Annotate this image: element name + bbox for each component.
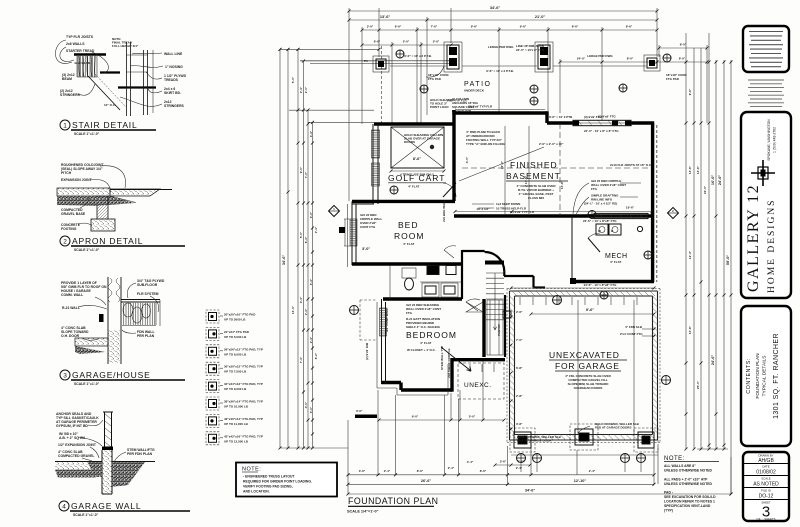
bedroom2 left wall with window [380, 299, 387, 384]
right notes [664, 456, 719, 513]
svg-text:8'-6": 8'-6" [413, 157, 421, 161]
golf cart slab pad with X [390, 127, 446, 177]
svg-text:- ENGINEERED TRUSS LAYOUT: - ENGINEERED TRUSS LAYOUT [243, 475, 295, 479]
svg-text:14'-6": 14'-6" [688, 165, 692, 174]
svg-text:UP TO 10,000 LB: UP TO 10,000 LB [224, 405, 249, 409]
detail 4 label: GARAGE WALL [59, 501, 190, 517]
svg-text:10'-8": 10'-8" [560, 180, 564, 189]
post P1 footing dashed line [381, 46, 383, 124]
svg-text:CLASS MIX: CLASS MIX [528, 196, 544, 200]
svg-text:12" O.C.: 12" O.C. [104, 103, 116, 107]
bottom extension lines [348, 390, 731, 494]
svg-text:1/2" EXPANSION JOINT: 1/2" EXPANSION JOINT [58, 443, 97, 447]
garage left interior dim texts [510, 310, 642, 475]
svg-text:BEDROOM: BEDROOM [406, 330, 457, 340]
svg-text:REQUIRED FOR GIRDER POINT LOAD: REQUIRED FOR GIRDER POINT LOADING. [243, 480, 312, 484]
svg-text:AND LOCATION.: AND LOCATION. [243, 490, 270, 494]
svg-text:FTG: FTG [591, 187, 598, 191]
svg-text:13'-6": 13'-6" [380, 15, 391, 19]
svg-text:UP TO 7,500 LB: UP TO 7,500 LB [224, 370, 247, 374]
svg-text:PAD AT GARAGE DOOR: PAD AT GARAGE DOOR [517, 439, 552, 443]
svg-text:COMPACTED GRAVEL: COMPACTED GRAVEL [58, 454, 94, 458]
svg-text:UP TO 5,000 LB: UP TO 5,000 LB [224, 335, 247, 339]
svg-text:3'-0": 3'-0" [356, 409, 363, 413]
svg-text:WALL LINE: WALL LINE [164, 52, 183, 56]
garage footing pads left cluster [510, 428, 535, 452]
svg-text:FTG PAD: FTG PAD [428, 77, 442, 81]
svg-text:SKIRT BD.: SKIRT BD. [164, 91, 181, 95]
svg-text:UNLESS OTHERWISE NOTED: UNLESS OTHERWISE NOTED [664, 469, 713, 473]
svg-text:STAIR DETAIL: STAIR DETAIL [72, 120, 138, 130]
black glb bar [355, 415, 377, 419]
mech room left wall [571, 216, 573, 282]
svg-text:34'-6": 34'-6" [490, 6, 501, 10]
garage inside hatch ticks [520, 297, 637, 305]
svg-text:SEE EXCAVATION FOR SOIL/LD: SEE EXCAVATION FOR SOIL/LD [664, 495, 716, 499]
bottom dimension lines [347, 360, 733, 496]
svg-text:TYP FLR JOISTS: TYP FLR JOISTS [66, 35, 94, 39]
svg-text:3'-6": 3'-6" [500, 460, 507, 464]
mech corner post [570, 278, 576, 284]
svg-text:34"x34"x12" FTG PAD, TYP: 34"x34"x12" FTG PAD, TYP [224, 382, 263, 386]
detail 1: stair detail sketch [55, 35, 186, 116]
svg-text:DOORS: DOORS [404, 140, 415, 144]
svg-text:9'-0": 9'-0" [412, 415, 419, 419]
svg-text:P6: P6 [364, 59, 368, 63]
svg-text:24'-0": 24'-0" [718, 175, 722, 186]
svg-text:OF SHEETS: OF SHEETS [757, 517, 776, 521]
detail 4: garage wall sketch [55, 412, 155, 494]
detail 1 label: STAIR DETAIL [60, 120, 156, 136]
golf cart room top wall [374, 122, 455, 125]
landing wall to stairs [462, 250, 485, 252]
svg-text:(2) 9'x9' TYP FLR: (2) 9'x9' TYP FLR [468, 105, 493, 109]
svg-text:TYPE "A" END-ON FILLING: TYPE "A" END-ON FILLING [466, 142, 506, 146]
svg-text:26"x26"x12" FTG PAD, TYP: 26"x26"x12" FTG PAD, TYP [224, 347, 263, 351]
svg-text:UP TO 11,000 LB: UP TO 11,000 LB [224, 422, 249, 426]
footing offset lines bottom-left [345, 204, 452, 395]
svg-text:GARAGE WALL: GARAGE WALL [71, 501, 141, 511]
garage internal dim [530, 308, 656, 316]
garage perimeter stem walls [510, 291, 658, 440]
svg-text:SPOKANE, WASHINGTON: SPOKANE, WASHINGTON [767, 119, 771, 161]
svg-text:GALLERY 12: GALLERY 12 [745, 184, 762, 292]
svg-text:3: 3 [63, 373, 67, 380]
svg-text:PER PLAN: PER PLAN [137, 334, 155, 338]
svg-text:14'-6": 14'-6" [696, 165, 700, 174]
svg-text:2'-4": 2'-4" [516, 466, 523, 470]
mech room bottom wall [572, 280, 654, 283]
svg-text:2'x4' CONT FTG: 2'x4' CONT FTG [620, 332, 643, 336]
svg-text:SCALE: SCALE [761, 477, 770, 481]
svg-text:4x12 BEAM: 4x12 BEAM [74, 61, 91, 65]
svg-text:PATIO: PATIO [464, 81, 491, 88]
svg-text:FOOTING: FOOTING [61, 227, 77, 231]
svg-text:2x6 WALLS: 2x6 WALLS [66, 42, 85, 46]
top wall step [545, 111, 548, 123]
svg-text:4: 4 [62, 504, 66, 511]
svg-text:9'-6" = 10' x 2 P.T.B.: 9'-6" = 10' x 2 P.T.B. [486, 69, 514, 73]
svg-text:OVERHEAD DOORS: OVERHEAD DOORS [574, 386, 603, 390]
svg-text:CONT FTG: CONT FTG [360, 225, 376, 229]
svg-text:FULL HEIGHT 3/4": FULL HEIGHT 3/4" [112, 44, 139, 48]
svg-text:SCALE 1"=1'-0": SCALE 1"=1'-0" [74, 132, 100, 136]
svg-text:RIM LINE INFO: RIM LINE INFO [591, 198, 613, 202]
svg-text:3'-0": 3'-0" [367, 25, 374, 29]
svg-text:5'-0": 5'-0" [433, 40, 440, 44]
svg-text:14'-0": 14'-0" [291, 305, 295, 314]
stair enclosure walls [503, 272, 505, 276]
stair landing bar [485, 261, 504, 265]
detail 2: apron detail sketch [57, 163, 172, 231]
svg-text:3'-0": 3'-0" [362, 247, 370, 251]
leader arrow into unexc [441, 347, 471, 371]
svg-text:FTG PAD: FTG PAD [666, 77, 680, 81]
garage footing pads mid cluster [570, 424, 598, 450]
svg-text:SCALE 1"=1'-0": SCALE 1"=1'-0" [74, 248, 100, 252]
svg-text:8'-6": 8'-6" [480, 469, 487, 473]
svg-text:2: 2 [63, 239, 67, 246]
garage footing pads right cluster [634, 428, 658, 452]
svg-text:DRAWN BY: DRAWN BY [759, 454, 774, 458]
svg-text:16'-0": 16'-0" [711, 175, 715, 186]
svg-text:9'-6" = 10' 2 PTB: 9'-6" = 10' 2 PTB [549, 115, 573, 119]
svg-text:ALL PADS + 2'-0" x10" ATP: ALL PADS + 2'-0" x10" ATP [664, 478, 708, 482]
svg-text:PITCH: PITCH [61, 171, 72, 175]
svg-text:FILE ID: FILE ID [761, 489, 770, 493]
svg-text:5'-0": 5'-0" [291, 76, 295, 83]
svg-text:8'-6": 8'-6" [417, 469, 424, 473]
svg-text:24'-0": 24'-0" [577, 57, 586, 61]
svg-text:7'-6": 7'-6" [431, 25, 438, 29]
svg-text:1 (509) 443-2762: 1 (509) 443-2762 [773, 127, 777, 153]
svg-text:19'-4 1/2": 19'-4 1/2" [476, 207, 490, 211]
svg-text:6'-6": 6'-6" [374, 40, 381, 44]
note box [236, 463, 337, 497]
svg-text:7'-4": 7'-4" [299, 356, 303, 363]
svg-text:CONTENTS:: CONTENTS: [746, 358, 752, 393]
svg-text:2x8 SHELF CRIPPLE: 2x8 SHELF CRIPPLE [447, 348, 451, 378]
svg-text:9'-0" = 10' x 2 P.T.B.: 9'-0" = 10' x 2 P.T.B. [404, 54, 432, 58]
svg-text:UP TO 6,000 LB: UP TO 6,000 LB [224, 352, 247, 356]
svg-text:UP TO 12,500 LB: UP TO 12,500 LB [224, 439, 249, 443]
girder dashed line in basement [559, 123, 561, 216]
svg-text:FTG: FTG [406, 311, 413, 315]
top dimension lines [348, 6, 709, 64]
svg-text:UNLESS OTHERWISE NOTED: UNLESS OTHERWISE NOTED [664, 482, 713, 486]
closet door x pattern [466, 302, 483, 312]
hall door arcs [466, 299, 480, 311]
wall callout dashed leaders bedroom2 [360, 300, 376, 340]
svg-text:6'-2": 6'-2" [314, 352, 318, 359]
golf cart door swing [443, 183, 456, 197]
svg-text:2x6 BRG WALL: 2x6 BRG WALL [442, 200, 446, 222]
window sill block bedroom1 [339, 227, 345, 233]
svg-text:FOR GARAGE: FOR GARAGE [555, 361, 620, 371]
svg-text:SPECIFICATION VENT-LAND: SPECIFICATION VENT-LAND [664, 504, 711, 508]
svg-text:PANTRY: PANTRY [497, 324, 501, 336]
svg-text:TREADS: TREADS [164, 78, 179, 82]
pantry under stairs [487, 300, 503, 355]
svg-text:2'-4": 2'-4" [384, 469, 391, 473]
svg-text:STARTER TREAD: STARTER TREAD [66, 49, 95, 53]
left dimension lines [279, 48, 381, 450]
svg-text:GRAVEL BASE: GRAVEL BASE [61, 212, 86, 216]
svg-text:3'-4": 3'-4" [309, 130, 313, 137]
deck post P2 [444, 42, 462, 72]
svg-text:6'-6": 6'-6" [395, 25, 402, 29]
svg-text:12'-4": 12'-4" [688, 250, 692, 259]
svg-text:2'-4": 2'-4" [589, 469, 596, 473]
svg-text:EXPANSION JOINT: EXPANSION JOINT [61, 178, 93, 182]
svg-text:26'-6": 26'-6" [421, 479, 432, 483]
svg-text:4'-0": 4'-0" [465, 156, 469, 163]
svg-text:9'-6": 9'-6" [688, 88, 692, 95]
svg-text:UP TO 9,000 LB: UP TO 9,000 LB [224, 387, 247, 391]
basement top wall east segment with window [547, 121, 573, 124]
svg-text:9'-6": 9'-6" [520, 25, 527, 29]
svg-text:NOTE:: NOTE: [664, 456, 685, 462]
long diagonal leader [459, 147, 544, 181]
svg-text:5'-0": 5'-0" [403, 40, 410, 44]
svg-text:FOUNDATION PLAN: FOUNDATION PLAN [755, 353, 761, 399]
svg-text:POINT LOAD: POINT LOAD [430, 105, 449, 109]
svg-text:4" FDN SLB: 4" FDN SLB [625, 325, 643, 329]
garage left wall post [503, 311, 511, 318]
extension lines crossing garage [578, 300, 634, 434]
svg-text:(2) 9'x9' RIM: (2) 9'x9' RIM [365, 342, 369, 360]
small step dims near garage corner [495, 464, 530, 466]
svg-text:VERIFY FOOTING PAD SIZING,: VERIFY FOOTING PAD SIZING, [243, 485, 293, 489]
main upper-left vertical wall [452, 110, 455, 201]
svg-text:1x3 KEEP DOWN: 1x3 KEEP DOWN [496, 202, 520, 206]
bathroom fixtures [390, 265, 462, 299]
svg-text:9'-0": 9'-0" [299, 166, 303, 173]
washer dryer [596, 224, 621, 235]
svg-text:O.H. DOOR: O.H. DOOR [61, 334, 80, 338]
svg-text:9'-6": 9'-6" [586, 308, 594, 312]
svg-text:1: 1 [63, 123, 67, 130]
svg-text:W CLOSET + 4' O.C.: W CLOSET + 4' O.C. [407, 348, 436, 352]
svg-text:30"x30"x12" FTG PAD, TYP: 30"x30"x12" FTG PAD, TYP [224, 365, 263, 369]
top extension lines [362, 8, 707, 124]
svg-text:SUB-FLOOR: SUB-FLOOR [137, 283, 158, 287]
svg-text:PAD -: PAD - [664, 491, 673, 495]
svg-text:6'-4": 6'-4" [304, 236, 308, 243]
svg-text:APRON DETAIL: APRON DETAIL [72, 236, 143, 246]
curved stair wall [485, 252, 505, 272]
svg-text:2'-4": 2'-4" [309, 336, 313, 343]
svg-text:21'-0": 21'-0" [535, 15, 546, 19]
svg-text:01/08/02: 01/08/02 [756, 470, 776, 476]
logo cross [762, 160, 764, 186]
svg-text:3'-8": 3'-8" [516, 422, 523, 426]
svg-text:A.B. + 2" SQ WA: A.B. + 2" SQ WA [59, 436, 86, 440]
svg-text:BEAM: BEAM [62, 77, 72, 81]
footing pad legend [206, 310, 256, 323]
svg-text:LOCATION REFER TO NOTES 1: LOCATION REFER TO NOTES 1 [664, 500, 715, 504]
svg-text:24'-0" = 10'x 8" FLR: 24'-0" = 10'x 8" FLR [516, 48, 545, 52]
svg-text:24'-6": 24'-6" [711, 355, 715, 366]
svg-text:24'-6" - 10' x 8"x8" FTG: 24'-6" - 10' x 8"x8" FTG [584, 283, 618, 287]
garage dim line at piers [511, 454, 658, 456]
svg-text:34'-6": 34'-6" [525, 488, 536, 492]
svg-text:ALL WALLS ARE 8": ALL WALLS ARE 8" [664, 464, 696, 468]
svg-text:7'-0": 7'-0" [516, 338, 523, 342]
diamond markers [329, 206, 340, 217]
svg-text:2'-6": 2'-6" [516, 310, 523, 314]
bath right wall [461, 250, 463, 299]
svg-text:STEM WALL TYP: STEM WALL TYP [440, 346, 444, 370]
svg-text:BASEMENT: BASEMENT [506, 171, 561, 181]
svg-text:2x10 FLR JOISTS AT 16" O.C.: 2x10 FLR JOISTS AT 16" O.C. [610, 163, 652, 167]
svg-text:4'-0": 4'-0" [304, 401, 308, 408]
patio deck edge lines [300, 54, 646, 73]
svg-text:STRINGERS: STRINGERS [164, 104, 185, 108]
svg-text:UNEXCAVATED: UNEXCAVATED [549, 350, 620, 360]
svg-text:24'-0" - 10' x 8" x 8" FTG: 24'-0" - 10' x 8" x 8" FTG [584, 129, 619, 133]
dim between mech and garage [510, 283, 656, 290]
svg-text:TYPICAL DETAILS: TYPICAL DETAILS [762, 356, 768, 397]
svg-text:40"x40"x14" FTG PAD, TYP: 40"x40"x14" FTG PAD, TYP [224, 417, 263, 421]
svg-text:1301 SQ. FT. RANCHER: 1301 SQ. FT. RANCHER [773, 333, 780, 419]
svg-text:8'-0": 8'-0" [679, 57, 686, 61]
svg-text:FINISHED: FINISHED [510, 160, 558, 170]
svg-text:(24'-1" - 10' x 4 1/2" RS): (24'-1" - 10' x 4 1/2" RS) [584, 202, 617, 206]
svg-text:4" FLAT: 4" FLAT [420, 341, 432, 345]
deck post P3 [535, 42, 553, 72]
svg-text:4" FLAT: 4" FLAT [610, 260, 622, 264]
garage wall hatch [510, 291, 658, 440]
svg-text:(TYP): (TYP) [664, 509, 673, 513]
golf cart left wall with windows [352, 124, 380, 204]
svg-text:2'-4": 2'-4" [299, 86, 303, 93]
svg-text:34'-6": 34'-6" [282, 255, 286, 266]
svg-text:24"x24" FTG PAD: 24"x24" FTG PAD [224, 330, 250, 334]
title block: copyright box [743, 26, 789, 72]
svg-text:NOTE:: NOTE: [242, 467, 261, 473]
deck post P4 [644, 55, 660, 71]
svg-text:2'-8": 2'-8" [516, 394, 523, 398]
svg-text:GOLF CART: GOLF CART [388, 173, 446, 183]
mech door [588, 238, 600, 252]
extra basement interior dims and texts [454, 44, 654, 214]
svg-text:3'-6": 3'-6" [359, 469, 366, 473]
svg-text:GYPSUM, IF INT BD: GYPSUM, IF INT BD [56, 424, 88, 428]
svg-text:42"x42"x16" FTG PAD, TYP: 42"x42"x16" FTG PAD, TYP [224, 434, 263, 438]
svg-text:6'-8": 6'-8" [516, 366, 523, 370]
hw circle mech [637, 226, 642, 231]
svg-text:3'-4": 3'-4" [299, 296, 303, 303]
svg-text:24'-6" = 10' x 8"x8" FTG: 24'-6" = 10' x 8"x8" FTG [583, 219, 617, 223]
deck post P1 [364, 56, 389, 72]
svg-text:3'-0": 3'-0" [309, 211, 313, 218]
svg-text:UNDER DECK: UNDER DECK [464, 89, 485, 93]
mid bearing wall [454, 214, 652, 217]
svg-text:LEDGE PER DWG: LEDGE PER DWG [587, 54, 613, 58]
bedroom2 bottom walls [382, 381, 402, 384]
garage pier symbols interior [553, 211, 671, 385]
svg-text:5'-0": 5'-0" [469, 415, 476, 419]
svg-text:12'-10": 12'-10" [574, 479, 587, 483]
svg-text:DO-12: DO-12 [759, 494, 774, 500]
svg-text:4" FLAT: 4" FLAT [408, 185, 420, 189]
svg-text:7'-0": 7'-0" [304, 171, 308, 178]
svg-text:19'-6": 19'-6" [626, 206, 635, 210]
svg-text:8'-6": 8'-6" [572, 25, 579, 29]
title block: small text block [748, 80, 784, 107]
svg-text:UNEXC.: UNEXC. [464, 382, 492, 389]
svg-text:5'-0": 5'-0" [299, 231, 303, 238]
title block: gallery 12 home designs [741, 112, 791, 298]
svg-text:BED: BED [398, 220, 418, 230]
svg-text:(2) 9'x9' TYP FLR: (2) 9'x9' TYP FLR [510, 210, 535, 214]
svg-text:2'-4": 2'-4" [314, 226, 318, 233]
svg-text:AS NOTED: AS NOTED [753, 482, 779, 488]
svg-text:3'-0": 3'-0" [309, 406, 313, 413]
stair treads [486, 273, 504, 330]
unexc crawl box [458, 363, 504, 399]
svg-text:10'-6": 10'-6" [688, 325, 692, 334]
svg-text:HOME DESIGNS: HOME DESIGNS [767, 199, 777, 293]
svg-text:DATE: DATE [762, 465, 769, 469]
svg-text:FLR SYSTEM: FLR SYSTEM [137, 292, 159, 296]
svg-text:8'-0": 8'-0" [627, 57, 634, 61]
bath bottom wall / bedroom2 top wall [383, 297, 462, 300]
svg-text:R-21 WALL: R-21 WALL [62, 306, 80, 310]
svg-text:9'-6": 9'-6" [471, 25, 478, 29]
bedroom1 left wall with window [344, 201, 357, 265]
svg-text:3/4" PONY WALL: 3/4" PONY WALL [385, 308, 389, 332]
svg-text:1" NOSING: 1" NOSING [165, 65, 183, 69]
svg-text:36"x36"x14" FTG PAD, TYP: 36"x36"x14" FTG PAD, TYP [224, 400, 263, 404]
svg-text:MECH: MECH [605, 253, 628, 260]
svg-text:14'-6": 14'-6" [524, 175, 528, 184]
title block: contents box [741, 306, 791, 446]
basement east wall [651, 123, 654, 282]
svg-text:10 TRUSS HELP-FLR: 10 TRUSS HELP-FLR [496, 207, 527, 211]
svg-text:50'-0": 50'-0" [726, 255, 730, 266]
svg-text:SCALE 1"=1'-0": SCALE 1"=1'-0" [73, 513, 99, 517]
svg-text:2'-4": 2'-4" [304, 308, 308, 315]
svg-text:LEDGE PER DWG: LEDGE PER DWG [488, 45, 514, 49]
svg-text:2'-4": 2'-4" [448, 466, 455, 470]
right dimension lines [685, 33, 733, 496]
svg-text:FOUNDATION PLAN: FOUNDATION PLAN [348, 496, 438, 506]
basement top wall west segment [452, 111, 547, 114]
svg-text:22'-0": 22'-0" [703, 185, 707, 194]
svg-text:COMM. WALL: COMM. WALL [61, 293, 83, 297]
svg-text:20"x20"x10" FTG PAD: 20"x20"x10" FTG PAD [224, 313, 256, 317]
detail 3 label: GARAGE/HOUSE [60, 370, 185, 386]
svg-text:2'-0": 2'-0" [304, 86, 308, 93]
svg-text:UP TO 2000 LB: UP TO 2000 LB [224, 318, 246, 322]
deck pier symbols [396, 50, 671, 105]
svg-text:PER FDN PLAN: PER FDN PLAN [127, 452, 153, 456]
svg-text:SCALE 1/4"=1'-0": SCALE 1/4"=1'-0" [347, 510, 379, 514]
svg-text:W: W [598, 229, 601, 233]
bedroom1 top wall [352, 200, 455, 203]
svg-text:3'-4": 3'-4" [309, 278, 313, 285]
svg-text:SCALE 1"=1'-0": SCALE 1"=1'-0" [74, 382, 100, 386]
svg-text:SHELF 4" O.C. NAILING: SHELF 4" O.C. NAILING [406, 325, 441, 329]
svg-text:GARAGE/HOUSE: GARAGE/HOUSE [72, 370, 151, 380]
garage pier circles [517, 454, 646, 463]
svg-text:8'-6": 8'-6" [626, 25, 633, 29]
svg-text:PAD AT GARAGE DOORS: PAD AT GARAGE DOORS [595, 426, 631, 430]
svg-text:ROOM: ROOM [394, 231, 424, 241]
hall wall below bedroom1 [352, 262, 462, 265]
